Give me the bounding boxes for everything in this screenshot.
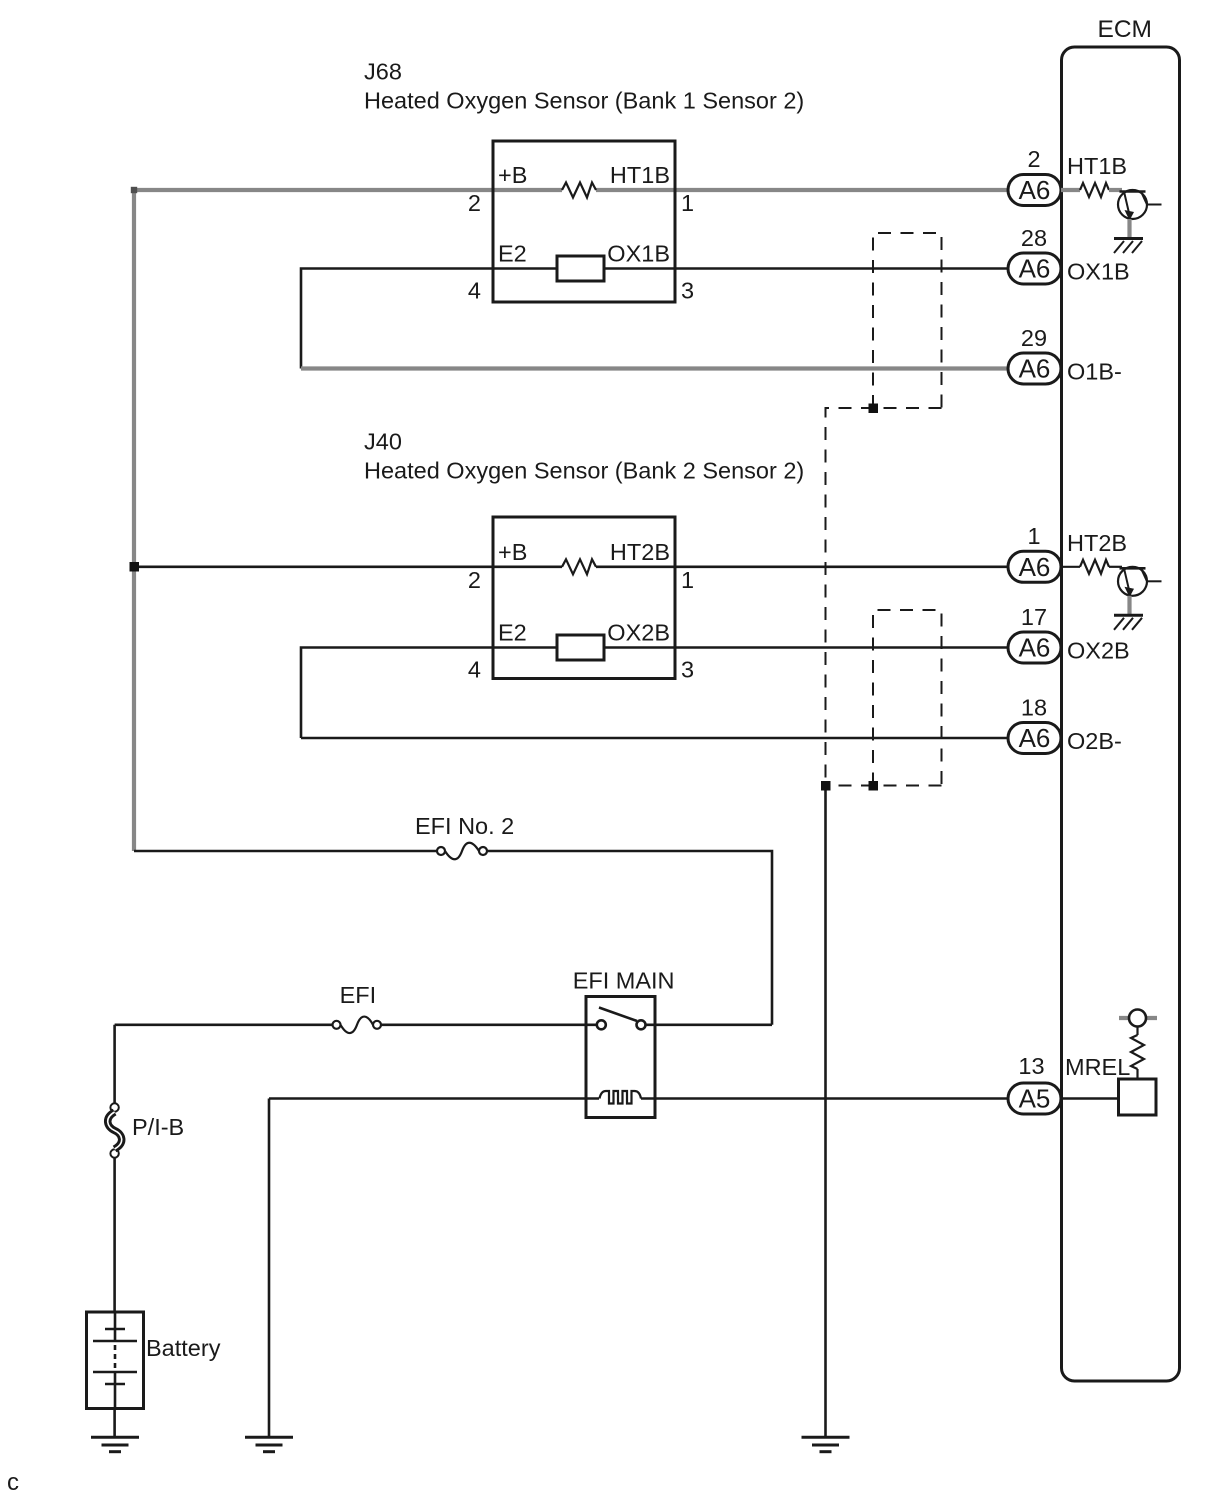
svg-text:J40: J40: [364, 429, 402, 455]
emitter drop gray: [1127, 219, 1131, 239]
shield junction dot 2: [821, 781, 831, 791]
svg-text:1: 1: [681, 567, 694, 593]
fuse EFI: [333, 1017, 382, 1034]
svg-text:HT1B: HT1B: [610, 162, 670, 188]
emitter drop gray: [1127, 596, 1131, 616]
svg-text:A6: A6: [1019, 552, 1051, 582]
ECM internal HT2B driver: [1061, 560, 1162, 630]
ground relay coil: [245, 1437, 293, 1451]
svg-text:E2: E2: [498, 620, 527, 646]
connector oval A6 pin 2: [1008, 175, 1061, 206]
chassis ground Q2: [1114, 614, 1143, 617]
ECM internal HT1B driver: [1061, 183, 1162, 253]
connector oval A5 pin 13: [1008, 1083, 1061, 1114]
svg-text:O1B-: O1B-: [1067, 359, 1122, 385]
svg-text:A6: A6: [1019, 354, 1051, 384]
svg-text:J68: J68: [364, 59, 402, 85]
ground battery: [91, 1437, 139, 1451]
wire E2 of J40 to left loop: [301, 648, 557, 739]
wire corner nub: [131, 187, 137, 193]
wire gray from pin to resistor: [1061, 188, 1080, 192]
svg-text:HT1B: HT1B: [1067, 153, 1127, 179]
wire battery branch vertical: [113, 1025, 116, 1103]
wire E2 of J68 to left loop: [301, 269, 557, 369]
resistor MREL pull-up: [1131, 1035, 1144, 1069]
wire circle to resistor: [1136, 1027, 1138, 1036]
svg-text:HT2B: HT2B: [1067, 530, 1127, 556]
B+ circle: [1129, 1010, 1146, 1027]
svg-text:OX2B: OX2B: [607, 620, 670, 646]
connector oval A6 pin 1: [1008, 551, 1061, 582]
svg-text:28: 28: [1021, 225, 1047, 251]
svg-text:3: 3: [681, 278, 694, 304]
shield box 2 (OX2B/O2B-) dashed: [826, 610, 942, 786]
wire EFI row from battery branch to relay: [115, 1024, 333, 1027]
wire from A5 to driver box: [1061, 1097, 1119, 1100]
relay switch contacts: [597, 1020, 606, 1029]
svg-text:17: 17: [1021, 604, 1047, 630]
svg-text:Heated Oxygen Sensor (Bank 2 S: Heated Oxygen Sensor (Bank 2 Sensor 2): [364, 458, 804, 484]
wire shield drain vertical: [824, 786, 827, 1438]
svg-text:Battery: Battery: [146, 1335, 221, 1361]
svg-text:EFI MAIN: EFI MAIN: [573, 967, 675, 993]
relay coil: [600, 1091, 642, 1104]
svg-text:OX1B: OX1B: [1067, 259, 1130, 285]
svg-text:ECM: ECM: [1098, 16, 1152, 43]
svg-text:A6: A6: [1019, 723, 1051, 753]
connector J68 box: [493, 141, 675, 302]
svg-text:+B: +B: [498, 539, 527, 565]
connector oval A6 pin 29: [1008, 353, 1061, 384]
svg-text:MREL: MREL: [1065, 1054, 1130, 1080]
svg-text:A5: A5: [1019, 1084, 1051, 1114]
wire coil ground vertical: [268, 1099, 271, 1438]
svg-text:4: 4: [468, 278, 481, 304]
wire gray resistor to transistor base: [1109, 188, 1122, 192]
svg-text:13: 13: [1018, 1053, 1044, 1079]
svg-text:EFI No. 2: EFI No. 2: [415, 813, 514, 839]
heater box J40: [557, 635, 604, 660]
ECM internal MREL circuit: [1061, 1010, 1157, 1116]
wire battery to ground: [113, 1409, 116, 1438]
connector oval A6 pin 17: [1008, 632, 1061, 663]
svg-text:c: c: [7, 1469, 19, 1496]
wire resistor to box: [1136, 1069, 1138, 1079]
battery: [87, 1312, 144, 1409]
wire from pin to resistor: [1061, 566, 1080, 568]
transistor Q1: [1118, 190, 1147, 219]
svg-text:2: 2: [1027, 146, 1040, 172]
resistor R HT2B: [1080, 560, 1109, 574]
connector J40 box: [493, 517, 675, 679]
svg-text:+B: +B: [498, 162, 527, 188]
wire +B inside J68 to resistor (gray): [493, 188, 562, 192]
connector oval A6 pin 18: [1008, 723, 1061, 754]
wire HT1B feed (gray) from left vertical to J68 +B: [134, 190, 493, 851]
wire O2B- loop bottom to ECM pin 18: [301, 737, 1010, 740]
relay switch blade: [599, 1008, 637, 1022]
B+ feed gray line: [1119, 1016, 1157, 1020]
wire HT1B from resistor to ECM pin 2 (gray): [596, 188, 1010, 192]
svg-text:HT2B: HT2B: [610, 539, 670, 565]
resistor heater element J40: [562, 559, 596, 574]
svg-text:A6: A6: [1019, 633, 1051, 663]
svg-text:EFI: EFI: [340, 982, 377, 1008]
wire HT2B from feed junction through J40 to ECM pin 1: [134, 565, 562, 568]
relay EFI MAIN box: [586, 997, 655, 1118]
svg-text:OX1B: OX1B: [607, 241, 670, 267]
wire OX1B from J68 pin 3 to ECM pin 28: [604, 267, 1010, 270]
transistor Q2: [1118, 567, 1147, 596]
svg-text:1: 1: [681, 190, 694, 216]
svg-text:A6: A6: [1019, 254, 1051, 284]
fusible link P/I-B: [108, 1103, 122, 1157]
svg-text:2: 2: [468, 190, 481, 216]
svg-text:3: 3: [681, 657, 694, 683]
svg-text:O2B-: O2B-: [1067, 728, 1122, 754]
shield box 1 (OX1B/O1B-) dashed: [826, 233, 942, 786]
svg-text:1: 1: [1027, 523, 1040, 549]
resistor heater element J68: [562, 183, 596, 198]
svg-text:A6: A6: [1019, 175, 1051, 205]
junction feed dot: [130, 562, 140, 572]
resistor R HT1B: [1080, 183, 1109, 197]
driver box: [1119, 1079, 1157, 1115]
svg-text:E2: E2: [498, 241, 527, 267]
wire relay switch out to EFI No.2 vertical: [646, 1024, 773, 1027]
heater box J68: [557, 256, 604, 281]
chassis ground Q1: [1114, 237, 1143, 240]
shield junction dot 1: [869, 404, 879, 414]
wire OX2B from J40 pin 3 to ECM pin 17: [604, 646, 1010, 649]
wire EFI No.2 row: [134, 850, 437, 853]
connector oval A6 pin 28: [1008, 253, 1061, 284]
wire O1B- (gray) loop bottom to ECM pin 29: [301, 366, 1010, 370]
svg-text:29: 29: [1021, 325, 1047, 351]
svg-text:4: 4: [468, 657, 481, 683]
ground shield drain: [802, 1437, 850, 1451]
shield junction dot 3: [869, 781, 879, 791]
svg-text:18: 18: [1021, 695, 1047, 721]
svg-text:Heated Oxygen Sensor (Bank 1 S: Heated Oxygen Sensor (Bank 1 Sensor 2): [364, 88, 804, 114]
svg-text:P/I-B: P/I-B: [132, 1114, 184, 1140]
fuse EFI No. 2: [437, 843, 487, 860]
ECM box: [1062, 47, 1180, 1381]
svg-text:2: 2: [468, 567, 481, 593]
wire relay coil row from ground branch to ECM pin 13: [269, 1097, 599, 1100]
svg-text:OX2B: OX2B: [1067, 638, 1130, 664]
wire resistor to transistor base: [1109, 566, 1122, 568]
